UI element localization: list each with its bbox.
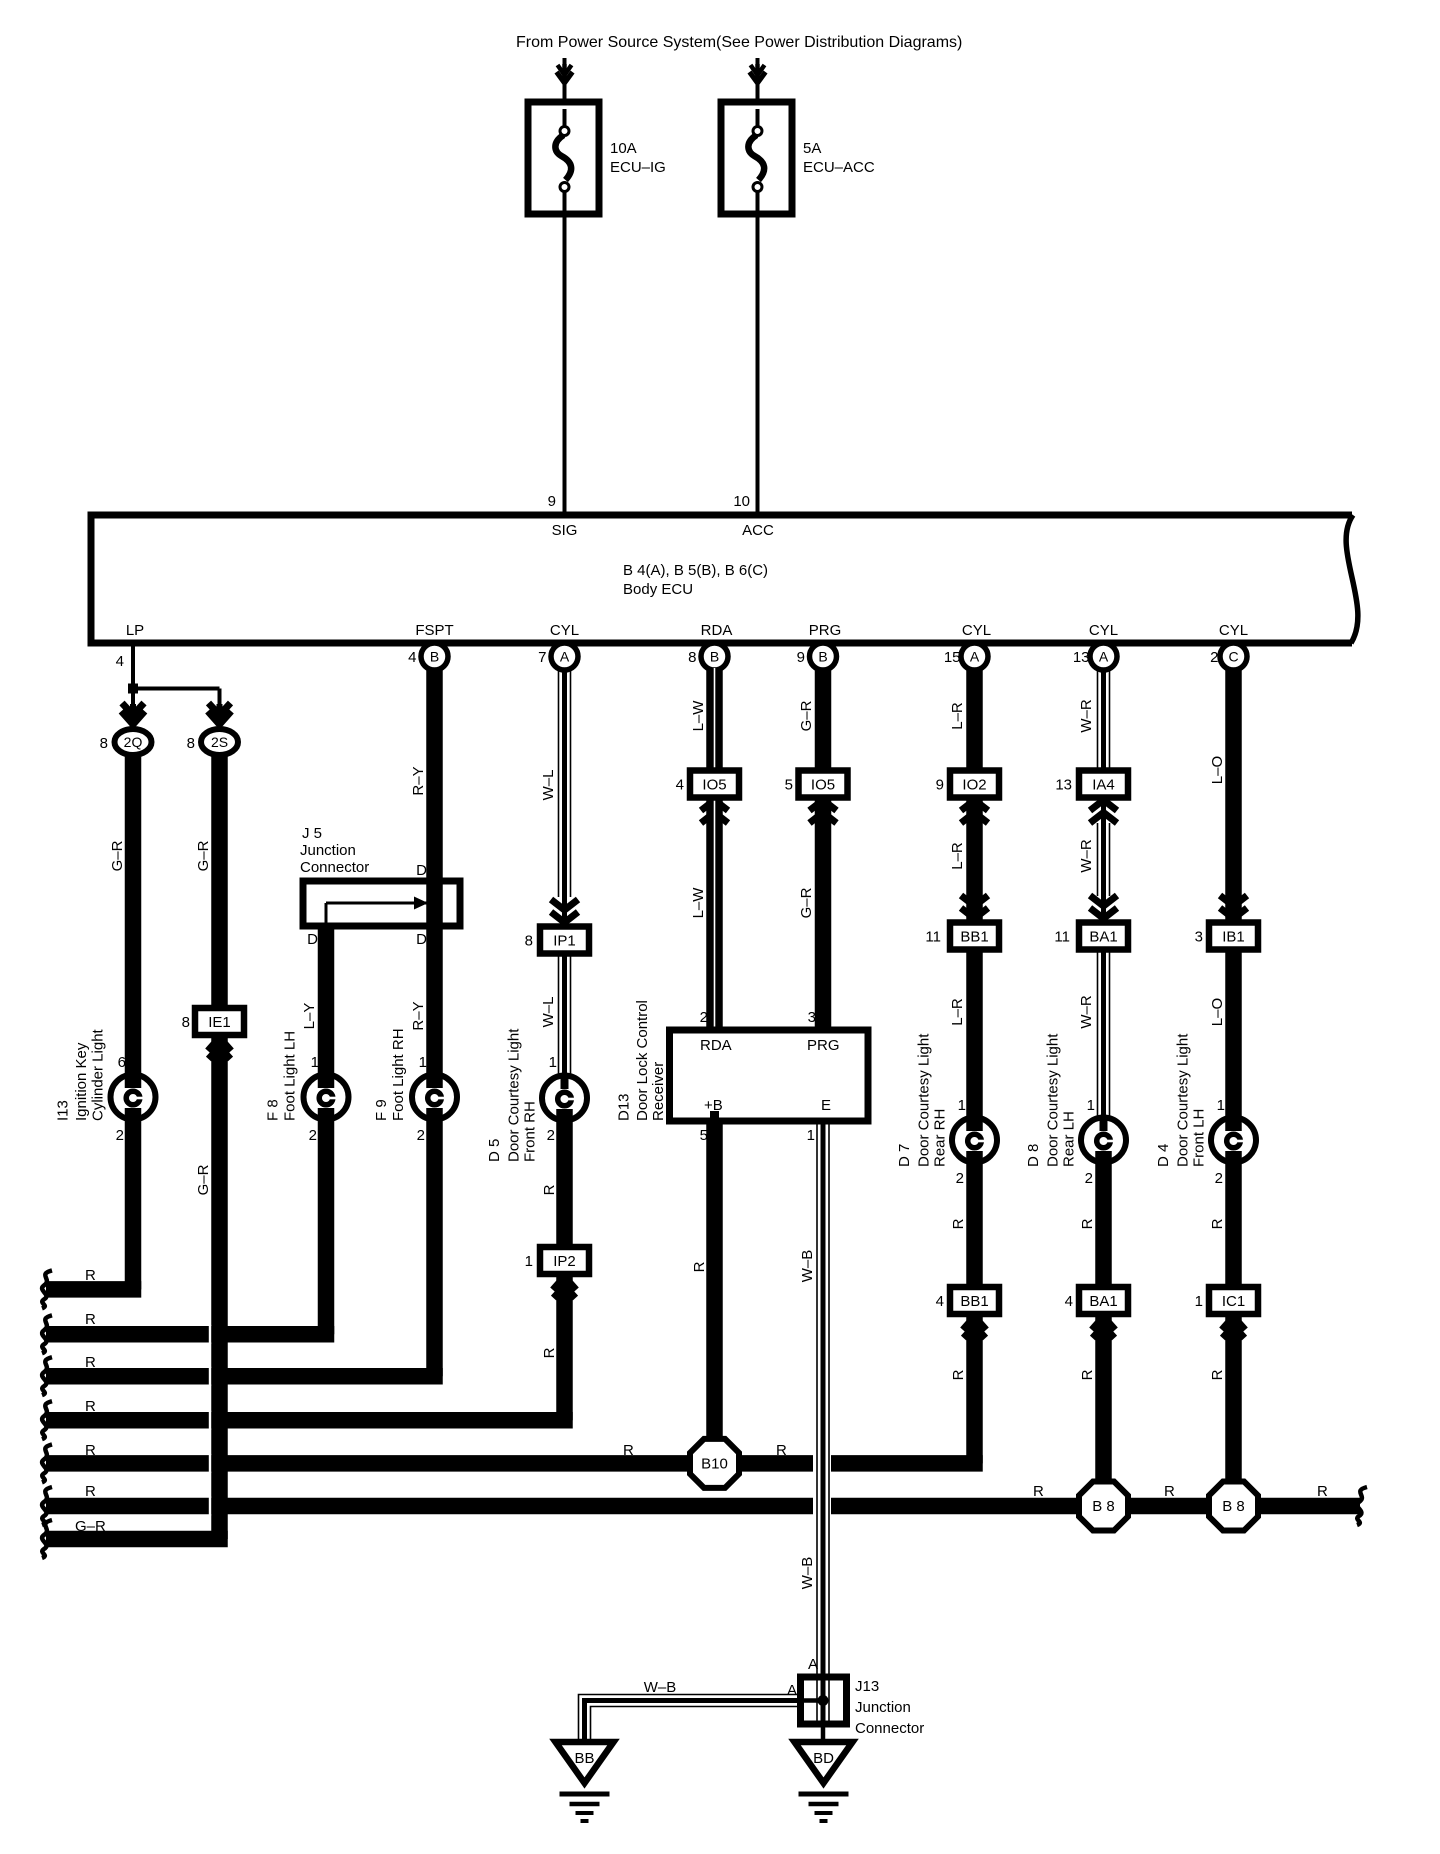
arrow double down into IB1 — [1220, 908, 1247, 919]
svg-text:8: 8 — [187, 735, 195, 752]
wire LP pigtail — [131, 643, 135, 689]
svg-text:BB1: BB1 — [960, 1293, 988, 1310]
wire W-L IP1 to D5 — [558, 954, 560, 1074]
svg-text:W–R: W–R — [1078, 699, 1095, 733]
svg-text:B 8: B 8 — [1222, 1498, 1245, 1515]
svg-text:IC1: IC1 — [1222, 1293, 1245, 1310]
wire G-R to I13 — [125, 756, 142, 1074]
J13 internal wires — [816, 1677, 818, 1724]
wire SIG from fuse to ECU — [563, 214, 567, 515]
svg-text:Door Courtesy Light: Door Courtesy Light — [916, 1033, 933, 1167]
bus wire R to F8 — [46, 1326, 334, 1343]
svg-text:G–R: G–R — [195, 1164, 212, 1195]
pin 4 connector B (FSPT) — [421, 643, 448, 670]
svg-text:1: 1 — [1195, 1293, 1203, 1310]
lamp D4 door courtesy light front LH — [1211, 1118, 1256, 1163]
connector IO2 — [950, 771, 999, 798]
svg-text:R: R — [85, 1354, 96, 1371]
crossing gaps col2 — [209, 1325, 211, 1344]
bus wire R through B10 — [46, 1455, 983, 1472]
svg-text:A: A — [560, 649, 570, 665]
junction B10 — [690, 1439, 739, 1488]
svg-text:2: 2 — [1210, 649, 1218, 666]
arrow double up into IO5 RDA — [701, 800, 728, 811]
svg-text:FSPT: FSPT — [415, 622, 453, 639]
ground BB — [556, 1742, 614, 1783]
svg-text:CYL: CYL — [1089, 622, 1118, 639]
svg-text:Connector: Connector — [855, 1720, 924, 1737]
svg-text:D13: D13 — [616, 1093, 633, 1121]
wire W-B E to J13 — [816, 1121, 818, 1677]
arrow double down into BA1 — [1090, 908, 1117, 919]
svg-text:C: C — [1228, 649, 1238, 665]
squiggle bus7 — [42, 1520, 52, 1558]
arrow up into IC1 — [1231, 1317, 1237, 1337]
svg-text:G–R: G–R — [75, 1518, 106, 1535]
svg-text:R: R — [623, 1442, 634, 1459]
svg-text:IP2: IP2 — [553, 1253, 576, 1270]
connector IC1 — [1209, 1287, 1258, 1314]
svg-text:4: 4 — [408, 649, 416, 666]
pin 13 connector A (CYL) — [1090, 643, 1117, 670]
wire L-Y J5 to F8 — [318, 926, 335, 1074]
bus wire R to D5 — [46, 1412, 573, 1429]
connector IO5 PRG — [799, 771, 848, 798]
svg-text:CYL: CYL — [550, 622, 579, 639]
squiggle bus3 — [42, 1357, 52, 1395]
Body ECU box — [91, 515, 1352, 643]
svg-text:2: 2 — [1215, 1170, 1223, 1187]
svg-text:ECU–ACC: ECU–ACC — [803, 159, 875, 176]
arrow up into IP2 — [562, 1277, 568, 1297]
svg-text:W–R: W–R — [1078, 995, 1095, 1029]
svg-text:BA1: BA1 — [1089, 1293, 1117, 1310]
svg-text:BD: BD — [813, 1750, 834, 1767]
svg-text:R: R — [776, 1442, 787, 1459]
arrow into fuse ECU-IG — [562, 64, 567, 83]
svg-text:G–R: G–R — [798, 887, 815, 918]
svg-text:Ignition Key: Ignition Key — [73, 1042, 90, 1121]
svg-text:Cylinder Light: Cylinder Light — [90, 1028, 107, 1121]
svg-text:Rear LH: Rear LH — [1061, 1111, 1078, 1167]
arrow into 2S — [217, 704, 223, 724]
svg-text:BB1: BB1 — [960, 929, 988, 946]
arrow double up into IO5 PRG — [810, 800, 837, 811]
svg-text:4: 4 — [116, 653, 124, 670]
wire R D5 to bus — [556, 1121, 573, 1420]
junction B8 right — [1209, 1482, 1258, 1531]
svg-text:Receiver: Receiver — [650, 1062, 667, 1121]
svg-text:D 4: D 4 — [1155, 1144, 1172, 1167]
wire L-R — [966, 668, 983, 1117]
+B pin tick — [710, 1111, 719, 1121]
wire R +B to B10 — [706, 1121, 723, 1439]
lamp F9 foot light RH — [412, 1075, 457, 1120]
svg-text:6: 6 — [118, 1054, 126, 1071]
svg-text:F 8: F 8 — [265, 1099, 282, 1121]
arrow up into IE1 — [217, 1038, 223, 1058]
arrow into fuse ECU-ACC — [755, 64, 760, 83]
svg-text:1: 1 — [419, 1054, 427, 1071]
arrow double up into IO2 — [961, 800, 988, 811]
connector 2Q — [115, 729, 152, 755]
connector IP1 — [540, 927, 589, 954]
svg-text:BA1: BA1 — [1089, 929, 1117, 946]
svg-text:10A: 10A — [610, 140, 637, 157]
wire W-R lower — [1097, 950, 1099, 1117]
wire F9 to bus R — [426, 1120, 443, 1376]
svg-text:Door Lock Control: Door Lock Control — [634, 1000, 651, 1121]
svg-text:IP1: IP1 — [553, 933, 576, 950]
svg-text:1: 1 — [807, 1127, 815, 1144]
svg-text:1: 1 — [311, 1054, 319, 1071]
svg-text:LP: LP — [126, 622, 144, 639]
svg-text:B: B — [430, 649, 439, 665]
svg-text:D: D — [307, 931, 318, 948]
lamp F8 foot light LH — [304, 1075, 349, 1120]
wire: fuse ECU-IG top lead — [563, 58, 567, 102]
svg-text:J13: J13 — [855, 1678, 879, 1695]
svg-text:W–B: W–B — [799, 1557, 816, 1590]
svg-text:A: A — [970, 649, 980, 665]
svg-text:IO5: IO5 — [702, 777, 726, 794]
svg-text:B 8: B 8 — [1092, 1498, 1115, 1515]
svg-text:IO2: IO2 — [962, 777, 986, 794]
svg-text:W–L: W–L — [540, 770, 557, 801]
svg-text:3: 3 — [808, 1009, 816, 1026]
svg-text:Connector: Connector — [300, 859, 369, 876]
lamp I13 ignition key cylinder light — [111, 1075, 156, 1120]
svg-text:L–R: L–R — [949, 842, 966, 870]
svg-text:4: 4 — [936, 1293, 944, 1310]
wire W-R mid — [1097, 823, 1099, 896]
svg-text:R: R — [1033, 1483, 1044, 1500]
wire ACC from fuse to ECU — [756, 213, 760, 515]
svg-text:B 4(A), B 5(B), B 6(C): B 4(A), B 5(B), B 6(C) — [623, 562, 768, 579]
wire F8 to bus R — [318, 1120, 335, 1334]
svg-text:13: 13 — [1055, 777, 1072, 794]
svg-text:Door Courtesy Light: Door Courtesy Light — [1045, 1033, 1062, 1167]
svg-text:5: 5 — [785, 777, 793, 794]
svg-text:B10: B10 — [701, 1455, 728, 1472]
svg-text:2: 2 — [309, 1127, 317, 1144]
connector IP2 — [540, 1247, 589, 1274]
svg-text:W–R: W–R — [1078, 839, 1095, 873]
svg-text:8: 8 — [525, 933, 533, 950]
svg-text:L–R: L–R — [949, 998, 966, 1026]
svg-text:L–R: L–R — [949, 702, 966, 730]
wire G-R PRG — [815, 668, 832, 1030]
svg-text:R: R — [1317, 1483, 1328, 1500]
svg-text:Body ECU: Body ECU — [623, 581, 693, 598]
connector 2S — [201, 729, 238, 755]
svg-text:G–R: G–R — [798, 700, 815, 731]
svg-text:D: D — [416, 862, 427, 879]
connector IE1 — [195, 1008, 244, 1035]
svg-text:CYL: CYL — [962, 622, 991, 639]
bus wire G-R to IE1 wire — [46, 1531, 228, 1548]
bus wire R through B8 B8 — [46, 1498, 1360, 1515]
svg-text:J 5: J 5 — [302, 825, 322, 842]
svg-text:R: R — [1164, 1483, 1175, 1500]
svg-text:W–B: W–B — [799, 1250, 816, 1283]
svg-text:IE1: IE1 — [208, 1014, 231, 1031]
svg-text:R: R — [541, 1347, 558, 1358]
arrow double down into IP1 — [551, 912, 578, 923]
pin 15 connector A (CYL) — [961, 643, 988, 670]
svg-text:9: 9 — [797, 649, 805, 666]
svg-text:9: 9 — [548, 493, 556, 510]
squiggle bus1 — [42, 1270, 52, 1308]
svg-text:R: R — [1209, 1218, 1226, 1229]
svg-text:R–Y: R–Y — [410, 1001, 427, 1030]
svg-text:R: R — [1079, 1218, 1096, 1229]
svg-text:2: 2 — [417, 1127, 425, 1144]
door lock control receiver D13 box — [670, 1030, 869, 1121]
wire W-R core — [1101, 668, 1106, 1117]
svg-text:E: E — [821, 1097, 831, 1114]
svg-text:RDA: RDA — [700, 1037, 732, 1054]
svg-text:8: 8 — [100, 735, 108, 752]
svg-text:1: 1 — [958, 1097, 966, 1114]
svg-text:3: 3 — [1195, 929, 1203, 946]
svg-text:ECU–IG: ECU–IG — [610, 159, 666, 176]
arrow double down into BB1 — [961, 908, 988, 919]
svg-text:I13: I13 — [55, 1100, 72, 1121]
svg-text:R: R — [950, 1369, 967, 1380]
svg-text:W–B: W–B — [644, 1679, 677, 1696]
arrow up into BB1 lower — [972, 1317, 978, 1337]
pin 7 connector A (CYL) — [551, 643, 578, 670]
arrow into 2Q — [130, 704, 136, 724]
squiggle bus5 — [42, 1444, 52, 1482]
svg-text:IA4: IA4 — [1092, 777, 1115, 794]
junction connector J5 box — [303, 881, 460, 926]
svg-text:A: A — [1099, 649, 1109, 665]
svg-text:R: R — [85, 1267, 96, 1284]
pin 9 connector B (PRG) — [810, 643, 837, 670]
svg-text:2: 2 — [1085, 1170, 1093, 1187]
wire L-W RDA — [706, 668, 723, 1030]
svg-text:1: 1 — [1087, 1097, 1095, 1114]
wire R D4 to B8 — [1225, 1163, 1242, 1482]
junction B8 left — [1079, 1482, 1128, 1531]
wire G-R 2S to bus — [211, 756, 228, 1539]
wire R D7 to bus — [966, 1163, 983, 1463]
svg-text:Rear RH: Rear RH — [932, 1109, 949, 1167]
bus wire R to F9 — [46, 1368, 443, 1385]
fuse 5A ECU-ACC — [721, 102, 792, 214]
lamp D7 door courtesy light rear RH — [952, 1118, 997, 1163]
svg-text:R–Y: R–Y — [410, 766, 427, 795]
svg-text:R: R — [541, 1184, 558, 1195]
svg-text:8: 8 — [688, 649, 696, 666]
svg-text:From Power Source System(See P: From Power Source System(See Power Distr… — [516, 34, 962, 51]
svg-text:7: 7 — [538, 649, 546, 666]
arrow up into BA1 lower — [1101, 1317, 1107, 1337]
svg-text:L–Y: L–Y — [301, 1003, 318, 1030]
svg-text:L–W: L–W — [690, 887, 707, 919]
svg-text:Foot Light LH: Foot Light LH — [282, 1031, 299, 1121]
connector BB1 lower — [950, 1287, 999, 1314]
wire I13 to bus R — [125, 1120, 142, 1289]
svg-text:SIG: SIG — [552, 522, 578, 539]
crossing window E wire — [813, 1454, 831, 1473]
svg-text:Front RH: Front RH — [522, 1101, 539, 1162]
svg-text:1: 1 — [525, 1253, 533, 1270]
lamp D8 door courtesy light rear LH — [1081, 1118, 1126, 1163]
wire: fuse ECU-ACC top lead — [756, 58, 760, 102]
svg-text:2Q: 2Q — [124, 734, 143, 750]
squiggle bus2 — [42, 1315, 52, 1353]
fuse 10A ECU-IG — [528, 102, 599, 214]
svg-text:ACC: ACC — [742, 522, 774, 539]
svg-text:R: R — [85, 1483, 96, 1500]
svg-text:R: R — [85, 1442, 96, 1459]
svg-text:2: 2 — [700, 1009, 708, 1026]
svg-text:D: D — [416, 931, 427, 948]
arrow double up into IA4 — [1090, 800, 1117, 811]
svg-text:Junction: Junction — [855, 1699, 911, 1716]
svg-text:A: A — [787, 1682, 797, 1699]
svg-text:10: 10 — [733, 493, 750, 510]
svg-text:BB: BB — [574, 1750, 594, 1767]
svg-text:A: A — [808, 1656, 818, 1673]
svg-text:R: R — [85, 1398, 96, 1415]
svg-text:11: 11 — [1054, 929, 1070, 946]
pin 8 connector B (RDA) — [701, 643, 728, 670]
svg-text:PRG: PRG — [807, 1037, 840, 1054]
svg-text:W–L: W–L — [540, 997, 557, 1028]
connector IA4 — [1079, 771, 1128, 798]
svg-text:B: B — [818, 649, 827, 665]
svg-text:D 5: D 5 — [486, 1139, 503, 1162]
svg-text:1: 1 — [1217, 1097, 1225, 1114]
svg-text:R: R — [1209, 1369, 1226, 1380]
svg-text:PRG: PRG — [809, 622, 842, 639]
svg-text:4: 4 — [1065, 1293, 1073, 1310]
ground BD — [795, 1742, 853, 1783]
junction dot LP — [128, 684, 138, 694]
squiggle bus6 right — [1357, 1487, 1367, 1525]
connector BA1 upper — [1079, 923, 1128, 950]
svg-text:R: R — [85, 1311, 96, 1328]
svg-text:9: 9 — [936, 777, 944, 794]
svg-text:G–R: G–R — [109, 840, 126, 871]
svg-text:Door Courtesy Light: Door Courtesy Light — [1175, 1033, 1192, 1167]
svg-text:5A: 5A — [803, 140, 821, 157]
wire J13 to BD — [821, 1724, 826, 1742]
svg-text:R: R — [1079, 1369, 1096, 1380]
wire W-R upper — [1097, 668, 1099, 797]
J5 internal branch wire — [326, 902, 428, 905]
svg-text:11: 11 — [925, 929, 941, 946]
svg-text:Door Courtesy Light: Door Courtesy Light — [506, 1028, 523, 1162]
svg-text:D 7: D 7 — [896, 1144, 913, 1167]
svg-text:IB1: IB1 — [1222, 929, 1245, 946]
squiggle bus4 — [42, 1401, 52, 1439]
wire W-L CYL upper — [558, 668, 560, 897]
svg-text:R: R — [691, 1261, 708, 1272]
svg-text:D 8: D 8 — [1025, 1144, 1042, 1167]
connector IB1 — [1209, 923, 1258, 950]
svg-text:G–R: G–R — [195, 840, 212, 871]
svg-text:F 9: F 9 — [373, 1099, 390, 1121]
svg-text:CYL: CYL — [1219, 622, 1248, 639]
wire W-B J13 to BB — [579, 1695, 801, 1743]
squiggle bus6 left — [42, 1487, 52, 1525]
wire R-Y FSPT — [426, 668, 443, 1074]
connector BB1 upper — [950, 923, 999, 950]
svg-text:L–W: L–W — [690, 700, 707, 732]
svg-text:15: 15 — [944, 649, 961, 666]
svg-text:Front LH: Front LH — [1191, 1109, 1208, 1167]
svg-text:2: 2 — [547, 1127, 555, 1144]
svg-text:2: 2 — [956, 1170, 964, 1187]
svg-text:L–O: L–O — [1209, 998, 1226, 1026]
wire R D8 to B8 — [1095, 1163, 1112, 1482]
svg-text:2: 2 — [116, 1127, 124, 1144]
svg-text:RDA: RDA — [701, 622, 733, 639]
svg-text:8: 8 — [182, 1014, 190, 1031]
svg-text:2S: 2S — [211, 734, 228, 750]
junction connector J13 — [801, 1677, 847, 1724]
svg-text:Junction: Junction — [300, 842, 356, 859]
connector IO5 RDA — [690, 771, 739, 798]
svg-text:R: R — [950, 1218, 967, 1229]
lamp D5 door courtesy light front RH — [542, 1076, 587, 1121]
svg-text:Foot Light RH: Foot Light RH — [390, 1028, 407, 1121]
svg-text:1: 1 — [549, 1054, 557, 1071]
wire L-O — [1225, 668, 1242, 1117]
svg-text:13: 13 — [1073, 649, 1090, 666]
svg-text:4: 4 — [676, 777, 684, 794]
connector BA1 lower — [1079, 1287, 1128, 1314]
svg-text:L–O: L–O — [1209, 756, 1226, 784]
svg-text:IO5: IO5 — [811, 777, 835, 794]
bus wire R to I13 — [46, 1281, 141, 1298]
svg-text:B: B — [710, 649, 719, 665]
pin 2 connector C (CYL) — [1220, 643, 1247, 670]
